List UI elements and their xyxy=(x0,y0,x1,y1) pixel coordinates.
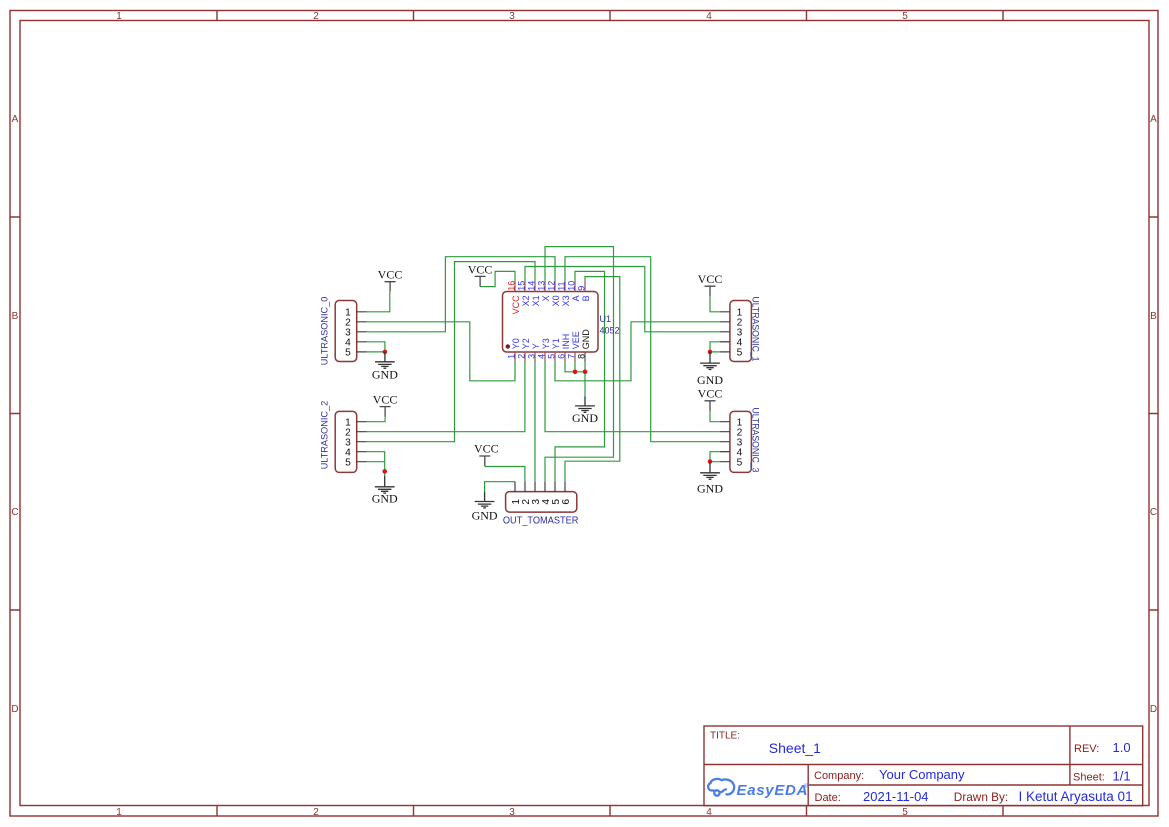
svg-text:VCC: VCC xyxy=(378,267,403,281)
svg-text:X2: X2 xyxy=(521,295,531,306)
U1 bottom pin names xyxy=(511,329,591,350)
svg-text:5: 5 xyxy=(345,458,351,469)
U1 top pin stubs 16-9 xyxy=(515,282,585,292)
wire ULTRASONIC_2 pin1 to VCC xyxy=(367,417,385,422)
svg-text:VCC: VCC xyxy=(698,272,723,286)
svg-text:Y0: Y0 xyxy=(511,338,521,349)
ground GND at U1 xyxy=(572,396,598,425)
svg-text:A: A xyxy=(12,114,19,125)
svg-text:C: C xyxy=(11,507,18,518)
power VCC at U1 xyxy=(468,262,493,286)
wire ULTRASONIC_0 pin3 to U1 pin12 X0 xyxy=(367,257,555,332)
svg-text:ULTRASONIC_0: ULTRASONIC_0 xyxy=(319,297,330,366)
wire U1 pin11 X3 to ULTRASONIC_3 pin3 xyxy=(565,257,720,442)
svg-text:5: 5 xyxy=(902,11,908,22)
svg-text:2: 2 xyxy=(313,11,319,22)
svg-text:Y3: Y3 xyxy=(541,338,551,349)
svg-text:6: 6 xyxy=(557,354,567,359)
svg-text:OUT_TOMASTER: OUT_TOMASTER xyxy=(503,516,579,527)
svg-text:B: B xyxy=(1150,311,1157,322)
svg-text:11: 11 xyxy=(556,281,566,290)
junction dot ULTRASONIC_2 GND xyxy=(382,469,387,474)
svg-text:5: 5 xyxy=(547,354,557,359)
junction dot ULTRASONIC_0 GND xyxy=(383,350,388,355)
svg-text:C: C xyxy=(1150,507,1157,518)
connector ULTRASONIC_1 xyxy=(720,297,760,362)
svg-text:ULTRASONIC_3: ULTRASONIC_3 xyxy=(749,408,760,473)
svg-text:D: D xyxy=(1150,704,1157,715)
svg-text:VCC: VCC xyxy=(474,441,499,455)
svg-text:X3: X3 xyxy=(561,295,571,306)
U1 top pin names xyxy=(511,295,591,315)
junction dot U1 pin8 xyxy=(583,370,588,375)
svg-text:Company:: Company: xyxy=(814,770,864,782)
svg-text:Y2: Y2 xyxy=(521,338,531,349)
svg-text:ULTRASONIC_1: ULTRASONIC_1 xyxy=(749,297,760,362)
wire U1 pin4 Y3 to ULTRASONIC_3 pin2 xyxy=(545,362,720,432)
wire VCC to U1 pin16 xyxy=(480,271,515,286)
power VCC at ULTRASONIC_3 xyxy=(698,387,723,411)
svg-text:GND: GND xyxy=(372,491,398,505)
junction dot U1 pin7 xyxy=(573,370,578,375)
svg-text:5: 5 xyxy=(737,458,743,469)
svg-text:5: 5 xyxy=(345,348,351,359)
connector OUT_TOMASTER xyxy=(503,482,579,527)
svg-text:Y1: Y1 xyxy=(551,338,561,349)
svg-text:B: B xyxy=(581,295,591,301)
svg-text:EasyEDA: EasyEDA xyxy=(737,782,809,799)
connector ULTRASONIC_2 xyxy=(319,401,366,473)
svg-text:GND: GND xyxy=(372,368,398,382)
svg-text:Date:: Date: xyxy=(815,792,841,804)
wire U1 pin13 X to OUT pin4 xyxy=(545,247,614,482)
power VCC at ULTRASONIC_1 xyxy=(698,272,723,296)
connector ULTRASONIC_0 xyxy=(319,297,366,366)
wire ULTRASONIC_2 pin2 to U1 pin2 Y2 xyxy=(367,362,525,432)
svg-text:10: 10 xyxy=(566,281,576,291)
ground GND at ULTRASONIC_1 xyxy=(697,352,723,387)
svg-text:14: 14 xyxy=(526,281,536,291)
svg-text:8: 8 xyxy=(577,354,587,359)
svg-text:GND: GND xyxy=(581,329,591,350)
svg-text:5: 5 xyxy=(737,348,743,359)
svg-text:16: 16 xyxy=(506,281,516,291)
svg-text:7: 7 xyxy=(567,354,577,359)
svg-text:X: X xyxy=(541,295,551,301)
power VCC at ULTRASONIC_2 xyxy=(373,393,398,417)
U1 pin 8 stub xyxy=(584,352,586,362)
wire U1 pins 6 7 8 to GND xyxy=(565,362,585,396)
power VCC at ULTRASONIC_0 xyxy=(378,267,403,291)
svg-text:TITLE:: TITLE: xyxy=(710,731,740,742)
svg-text:GND: GND xyxy=(697,373,723,387)
svg-text:GND: GND xyxy=(697,482,723,496)
svg-text:Sheet:: Sheet: xyxy=(1073,771,1105,783)
wire OUT pin1 to GND xyxy=(485,482,515,492)
ground GND at OUT_TOMASTER xyxy=(472,492,498,523)
junction dot ULTRASONIC_3 GND xyxy=(708,459,713,464)
wire ULTRASONIC_0 pin1 to VCC xyxy=(367,292,390,312)
svg-text:1/1: 1/1 xyxy=(1113,768,1131,783)
svg-text:VCC: VCC xyxy=(373,393,398,407)
svg-text:Your Company: Your Company xyxy=(879,767,965,782)
ground GND at ULTRASONIC_3 xyxy=(697,462,723,496)
ground GND at ULTRASONIC_0 xyxy=(372,352,398,382)
svg-text:U1: U1 xyxy=(600,314,612,324)
svg-text:3: 3 xyxy=(509,11,515,22)
svg-text:6: 6 xyxy=(561,499,572,505)
svg-text:1.0: 1.0 xyxy=(1113,740,1131,755)
svg-text:3: 3 xyxy=(527,354,537,359)
connector ULTRASONIC_3 xyxy=(720,408,760,473)
wire ULTRASONIC_2 pin3 to U1 pin14 X1 xyxy=(367,262,535,442)
svg-text:5: 5 xyxy=(902,807,908,818)
wire VCC to OUT pin2 xyxy=(485,467,525,482)
svg-text:®: ® xyxy=(804,782,809,790)
svg-text:VEE: VEE xyxy=(571,331,581,349)
svg-text:Y: Y xyxy=(531,343,541,349)
svg-text:Drawn By:: Drawn By: xyxy=(954,790,1008,804)
svg-text:2: 2 xyxy=(313,807,319,818)
title block xyxy=(704,726,1143,806)
U1 bottom pin numbers xyxy=(507,354,587,359)
wire ULTRASONIC_0 pins 4 5 to GND xyxy=(367,342,385,352)
svg-text:REV:: REV: xyxy=(1074,743,1099,755)
svg-text:ULTRASONIC_2: ULTRASONIC_2 xyxy=(319,401,330,470)
svg-text:VCC: VCC xyxy=(511,295,521,315)
svg-text:GND: GND xyxy=(472,509,498,523)
wire ULTRASONIC_3 pin1 to VCC xyxy=(710,411,720,422)
svg-text:A: A xyxy=(571,295,581,301)
svg-text:4: 4 xyxy=(706,11,712,22)
svg-text:15: 15 xyxy=(516,281,526,291)
svg-text:X1: X1 xyxy=(531,295,541,306)
svg-text:GND: GND xyxy=(572,411,598,425)
power VCC at OUT_TOMASTER xyxy=(474,441,499,466)
wire U1 pin3 Y to OUT pin3 xyxy=(534,362,536,482)
svg-text:13: 13 xyxy=(536,281,546,291)
svg-text:D: D xyxy=(11,704,18,715)
U1 bottom pin stubs 1-7 xyxy=(515,352,575,362)
svg-text:9: 9 xyxy=(576,286,586,291)
wire U1 pin15 X2 to ULTRASONIC_1 pin3 xyxy=(525,267,720,332)
wire U1 pin9 B to OUT pin6 xyxy=(565,277,620,482)
svg-text:I Ketut Aryasuta 01: I Ketut Aryasuta 01 xyxy=(1019,789,1133,804)
svg-text:3: 3 xyxy=(509,807,515,818)
svg-text:4: 4 xyxy=(706,807,712,818)
svg-text:1: 1 xyxy=(507,354,517,359)
svg-text:Sheet_1: Sheet_1 xyxy=(769,740,821,756)
svg-text:1: 1 xyxy=(116,11,122,22)
wire U1 pin10 A to OUT pin5 xyxy=(555,271,605,481)
op-amp U1 4052 mux body xyxy=(503,292,599,353)
svg-text:VCC: VCC xyxy=(468,262,493,276)
svg-text:VCC: VCC xyxy=(698,387,723,401)
wire ULTRASONIC_3 pins 4 5 to GND xyxy=(710,452,730,462)
svg-text:A: A xyxy=(1150,114,1157,125)
svg-text:12: 12 xyxy=(546,281,556,291)
wire ULTRASONIC_0 pin2 to U1 pin1 Y0 xyxy=(367,322,515,381)
EasyEDA logo xyxy=(708,779,809,799)
svg-text:B: B xyxy=(12,311,19,322)
svg-text:INH: INH xyxy=(561,334,571,350)
wire ULTRASONIC_1 pin1 to VCC xyxy=(710,296,720,311)
wire ULTRASONIC_2 pins 4 5 to GND xyxy=(367,452,385,476)
svg-text:4052: 4052 xyxy=(600,326,620,336)
svg-text:2021-11-04: 2021-11-04 xyxy=(863,789,929,804)
wire U1 pin5 Y1 to ULTRASONIC_1 pin2 xyxy=(555,322,720,381)
svg-text:2: 2 xyxy=(517,354,527,359)
wire ULTRASONIC_1 pins 4 5 to GND xyxy=(710,342,730,352)
svg-text:1: 1 xyxy=(116,807,122,818)
svg-text:4: 4 xyxy=(537,354,547,359)
U1 top pin numbers xyxy=(506,281,586,291)
ground GND at ULTRASONIC_2 xyxy=(372,476,398,506)
svg-text:X0: X0 xyxy=(551,295,561,306)
junction dot ULTRASONIC_1 GND xyxy=(708,350,713,355)
